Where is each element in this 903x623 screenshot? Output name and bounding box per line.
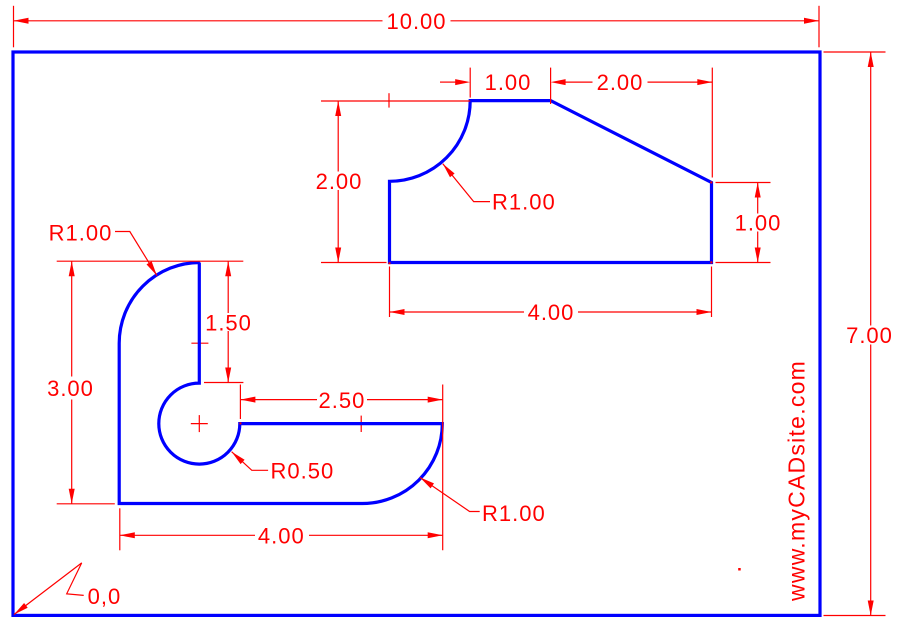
dim 2.00 top ext left bbox=[550, 68, 552, 104]
dim 1.00 right ext top bbox=[716, 182, 771, 184]
dim 4.00 bottom line bbox=[120, 534, 255, 536]
svg-text:3.00: 3.00 bbox=[47, 376, 94, 401]
dim 7.00 arrows bbox=[868, 52, 874, 67]
dim 1.50 arrows bbox=[225, 261, 231, 276]
dim 10.00 ext left bbox=[13, 6, 15, 48]
part outline top-right bbox=[390, 101, 712, 263]
dim 10.00 line bbox=[14, 20, 383, 22]
svg-text:2.00: 2.00 bbox=[597, 70, 644, 95]
dim 2.50 line bbox=[240, 399, 317, 401]
dim 3.00 arrows bbox=[69, 261, 75, 276]
dim 1.00 right ext bottom bbox=[716, 262, 771, 264]
dim 2.00 left line bbox=[337, 101, 339, 172]
defpoint dots bbox=[389, 262, 391, 264]
dim 2.00 left arrows bbox=[335, 101, 341, 116]
svg-text:R1.00: R1.00 bbox=[49, 220, 113, 245]
dim 1.50 ext bottom bbox=[204, 382, 243, 384]
dim 3.00 ext top (merged with 1.50) bbox=[57, 260, 244, 262]
svg-text:1.50: 1.50 bbox=[205, 310, 252, 335]
dim 3.00 line bbox=[71, 261, 73, 376]
dim 2.00 left ext bottom bbox=[321, 262, 387, 264]
svg-text:1.00: 1.00 bbox=[735, 211, 782, 236]
dim 2.50 ext left bbox=[239, 385, 241, 420]
leader 0,0 origin bbox=[14, 603, 28, 615]
dim 4.00 top-shape arrows bbox=[390, 309, 405, 315]
svg-text:R0.50: R0.50 bbox=[271, 458, 335, 483]
leader R1.00 top shape bbox=[443, 164, 455, 178]
dim 7.00 ext top bbox=[824, 51, 886, 53]
svg-text:www.myCADsite.com: www.myCADsite.com bbox=[784, 360, 810, 602]
svg-text:4.00: 4.00 bbox=[258, 523, 305, 548]
dim 1.00 right arrows bbox=[755, 183, 761, 198]
dim 1.50 line bbox=[227, 261, 229, 313]
svg-text:R1.00: R1.00 bbox=[492, 190, 556, 215]
dim 4.00 top-shape line bbox=[390, 311, 525, 313]
leader R0.50 bbox=[232, 452, 245, 464]
part outline bottom-left bbox=[119, 263, 442, 504]
dim 10.00 arrows bbox=[14, 18, 29, 24]
dim 4.00 bottom arrows bbox=[120, 532, 135, 538]
dim 4.00 top-shape ext left bbox=[389, 267, 391, 318]
svg-text:2.50: 2.50 bbox=[318, 388, 365, 413]
stray point bbox=[738, 568, 741, 571]
svg-text:0,0: 0,0 bbox=[88, 584, 122, 609]
dim 2.00 top ext right bbox=[711, 68, 713, 178]
dim 2.00 top arrows and line bbox=[551, 79, 566, 85]
center mark tick arc R1 top shape bbox=[388, 93, 390, 107]
svg-text:2.00: 2.00 bbox=[316, 169, 363, 194]
dim 10.00 ext right bbox=[818, 6, 820, 48]
center mark + circle R0.5 bbox=[191, 423, 208, 425]
dim 2.00 left ext top bbox=[321, 100, 470, 102]
svg-text:10.00: 10.00 bbox=[386, 9, 446, 34]
svg-text:R1.00: R1.00 bbox=[482, 501, 546, 526]
svg-text:4.00: 4.00 bbox=[528, 300, 575, 325]
dim 7.00 ext bottom bbox=[824, 615, 886, 617]
dim 1.00 right line bbox=[757, 183, 759, 214]
dim 1.00 top ext bbox=[469, 68, 471, 98]
center mark + fillet R1 bbox=[191, 342, 208, 344]
dim 7.00 line bbox=[870, 52, 872, 326]
svg-text:7.00: 7.00 bbox=[846, 323, 893, 348]
dim 3.00 ext bottom bbox=[57, 503, 115, 505]
center mark tick arc R1 bottom shape bbox=[360, 416, 362, 432]
dim 4.00 bottom ext left bbox=[119, 508, 121, 550]
svg-text:1.00: 1.00 bbox=[485, 70, 532, 95]
dim 4.00 top-shape ext right bbox=[711, 267, 713, 318]
leader R1.00 bottom-right bbox=[420, 477, 434, 488]
dim 1.00 top arrow line bbox=[440, 81, 456, 83]
dim 2.50 arrows bbox=[240, 397, 255, 403]
dim 2.50 / 4.00 shared ext right bbox=[442, 385, 444, 551]
